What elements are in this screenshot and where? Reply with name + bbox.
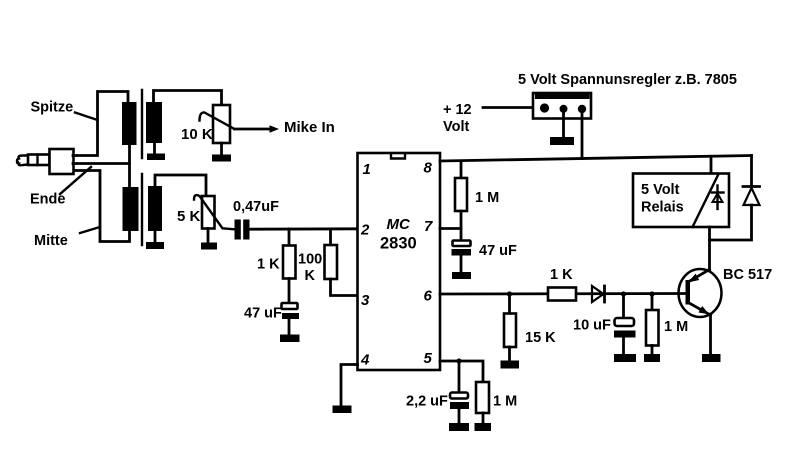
wire pot 10K bottom to ground bbox=[220, 143, 223, 155]
resistor 1M (pin5) bbox=[476, 382, 489, 413]
ground under R1M pin5 bbox=[475, 423, 492, 431]
svg-text:5: 5 bbox=[424, 350, 433, 367]
junction pin5 bbox=[456, 358, 461, 363]
svg-text:15 K: 15 K bbox=[525, 330, 556, 346]
ground under emitter bbox=[702, 354, 721, 362]
svg-text:1 M: 1 M bbox=[664, 319, 688, 335]
resistor 100K bbox=[325, 229, 338, 279]
ground under 47uF pin7 bbox=[452, 272, 471, 279]
resistor 15K bbox=[504, 294, 516, 361]
wire sleeve (Mitte) to T2 primary bottom bbox=[75, 171, 130, 242]
svg-text:Mike In: Mike In bbox=[284, 119, 335, 136]
wire pin5 to cap 2,2uF bbox=[458, 361, 461, 393]
svg-text:Relais: Relais bbox=[641, 200, 684, 216]
wire T2 secondary top to pot 5K bbox=[155, 175, 206, 195]
ground under 10uF bbox=[614, 354, 636, 362]
transformer T1 secondary winding bbox=[146, 102, 162, 143]
wire R1K to cap 47uF bbox=[288, 279, 291, 304]
transformer T2 secondary winding bbox=[148, 186, 162, 231]
diode D1 bbox=[592, 286, 605, 302]
ground under regulator bbox=[550, 137, 574, 145]
wire pin 6 to base bbox=[440, 292, 687, 295]
junction 15K bbox=[507, 291, 512, 296]
transformer T2 primary winding bbox=[123, 187, 139, 231]
ground under T2 secondary bbox=[146, 242, 164, 249]
svg-text:0,47uF: 0,47uF bbox=[233, 199, 279, 215]
resistor 1M (base) bbox=[646, 294, 659, 354]
wire regulator output to rail bbox=[581, 114, 584, 159]
ground pin 4 bbox=[333, 406, 352, 414]
svg-text:10 K: 10 K bbox=[181, 126, 213, 143]
svg-text:4: 4 bbox=[360, 352, 370, 369]
pointer line Spitze bbox=[75, 113, 98, 121]
svg-text:1: 1 bbox=[363, 161, 371, 178]
svg-text:K: K bbox=[305, 268, 316, 284]
transistor Q1 BC517 bbox=[679, 269, 722, 317]
junction 1M base bbox=[649, 291, 654, 296]
svg-text:+ 12: + 12 bbox=[443, 102, 472, 118]
wire center tap (Ende) bbox=[73, 162, 130, 165]
resistor 1K (base) bbox=[548, 288, 576, 301]
svg-text:5 Volt Spannunsregler z.B. 780: 5 Volt Spannunsregler z.B. 7805 bbox=[518, 72, 737, 88]
wire cap 0,47uF to IC pin 2 bbox=[250, 227, 358, 230]
wire cap 47uF to ground bbox=[288, 319, 291, 335]
capacitor 0,47uF bbox=[235, 220, 250, 240]
capacitor 2,2uF bbox=[450, 393, 469, 410]
voltage regulator U2 7805 bbox=[533, 93, 591, 119]
wire T1 secondary top to pot 10K bbox=[154, 91, 222, 106]
wire regulator middle pin to ground bbox=[562, 113, 565, 137]
capacitor 10uF bbox=[614, 294, 636, 354]
ground under T1 secondary bbox=[147, 154, 165, 161]
svg-text:7: 7 bbox=[424, 218, 433, 235]
svg-text:10 uF: 10 uF bbox=[573, 318, 611, 334]
svg-text:8: 8 bbox=[424, 160, 433, 177]
wire cap 47uF pin7 to ground bbox=[460, 256, 463, 273]
svg-text:2830: 2830 bbox=[380, 235, 417, 253]
svg-text:MC: MC bbox=[387, 216, 411, 233]
transformer T2 core bbox=[141, 174, 143, 245]
wire T2 secondary bottom to ground bbox=[154, 231, 157, 242]
wire emitter to ground bbox=[709, 315, 712, 354]
arrowhead Mike In bbox=[270, 125, 280, 133]
svg-text:47 uF: 47 uF bbox=[479, 243, 517, 259]
wire T1 secondary bottom to ground bbox=[153, 143, 156, 154]
svg-text:3: 3 bbox=[361, 292, 370, 309]
op-amp U1 MC2830 body bbox=[358, 153, 441, 370]
svg-text:1 K: 1 K bbox=[550, 267, 573, 283]
transformer T1 core bbox=[141, 90, 143, 158]
ground under cap 47uF input bbox=[280, 335, 300, 343]
wire R100K to IC pin 3 bbox=[331, 279, 358, 296]
ground under 15K bbox=[501, 361, 520, 369]
svg-text:5 K: 5 K bbox=[177, 208, 201, 225]
capacitor 47uF (pin7) bbox=[452, 241, 472, 256]
resistor 1K (input) bbox=[283, 229, 296, 279]
wire +5V rail from pin 8 bbox=[440, 156, 752, 162]
svg-text:Mitte: Mitte bbox=[34, 233, 68, 249]
jack plug J1 (3.5mm) bbox=[17, 149, 74, 174]
ground under 2,2uF bbox=[449, 423, 469, 431]
wire T1 primary bottom to T2 primary top bbox=[128, 145, 131, 187]
relay K1 5 Volt Relais bbox=[633, 174, 729, 228]
ground under pot 10K bbox=[212, 155, 231, 162]
wire rail to relay bbox=[710, 156, 713, 173]
svg-text:2: 2 bbox=[360, 222, 370, 239]
svg-text:5 Volt: 5 Volt bbox=[641, 182, 680, 198]
svg-text:1 M: 1 M bbox=[475, 190, 499, 206]
wire pot 5K bottom to ground bbox=[207, 229, 210, 243]
diode inside relay bbox=[712, 186, 724, 210]
svg-text:1 M: 1 M bbox=[493, 394, 517, 410]
pointer line Ende bbox=[60, 167, 91, 194]
svg-text:6: 6 bbox=[424, 288, 433, 305]
ground under pot 5K bbox=[201, 243, 217, 250]
wire pot 10K wiper to Mike In arrow bbox=[235, 128, 272, 131]
wire tip to T1 primary top bbox=[73, 92, 128, 156]
svg-text:1 K: 1 K bbox=[257, 257, 280, 273]
wire cap 2,2uF to ground bbox=[458, 409, 461, 423]
transformer T1 primary winding bbox=[122, 102, 137, 145]
pointer line Mitte bbox=[80, 227, 100, 233]
svg-text:Spitze: Spitze bbox=[31, 100, 74, 116]
potentiometer 5K bbox=[194, 195, 234, 229]
svg-text:BC 517: BC 517 bbox=[723, 267, 772, 283]
wire flyback diode to relay bottom bbox=[710, 205, 752, 240]
flyback diode D2 bbox=[743, 187, 760, 206]
wire +12V to regulator bbox=[483, 106, 533, 109]
wire relay to transistor collector bbox=[708, 227, 711, 270]
potentiometer 10K bbox=[200, 105, 235, 143]
junction 10uF bbox=[621, 291, 626, 296]
svg-text:2,2 uF: 2,2 uF bbox=[406, 394, 448, 410]
resistor 1M (pin8) bbox=[455, 161, 467, 229]
wire pin 5 node bbox=[440, 361, 483, 382]
svg-text:Volt: Volt bbox=[443, 119, 469, 135]
wire pin 7 to cap 47uF bbox=[440, 229, 461, 241]
svg-text:47 uF: 47 uF bbox=[244, 306, 282, 322]
wire R1M pin5 to ground bbox=[482, 413, 485, 423]
wire pin 4 to ground bbox=[341, 365, 358, 406]
svg-text:100: 100 bbox=[298, 252, 322, 268]
ground under 1M base bbox=[644, 354, 660, 362]
capacitor 47uF (input) bbox=[282, 303, 300, 319]
wire rail to flyback diode bbox=[750, 156, 753, 187]
